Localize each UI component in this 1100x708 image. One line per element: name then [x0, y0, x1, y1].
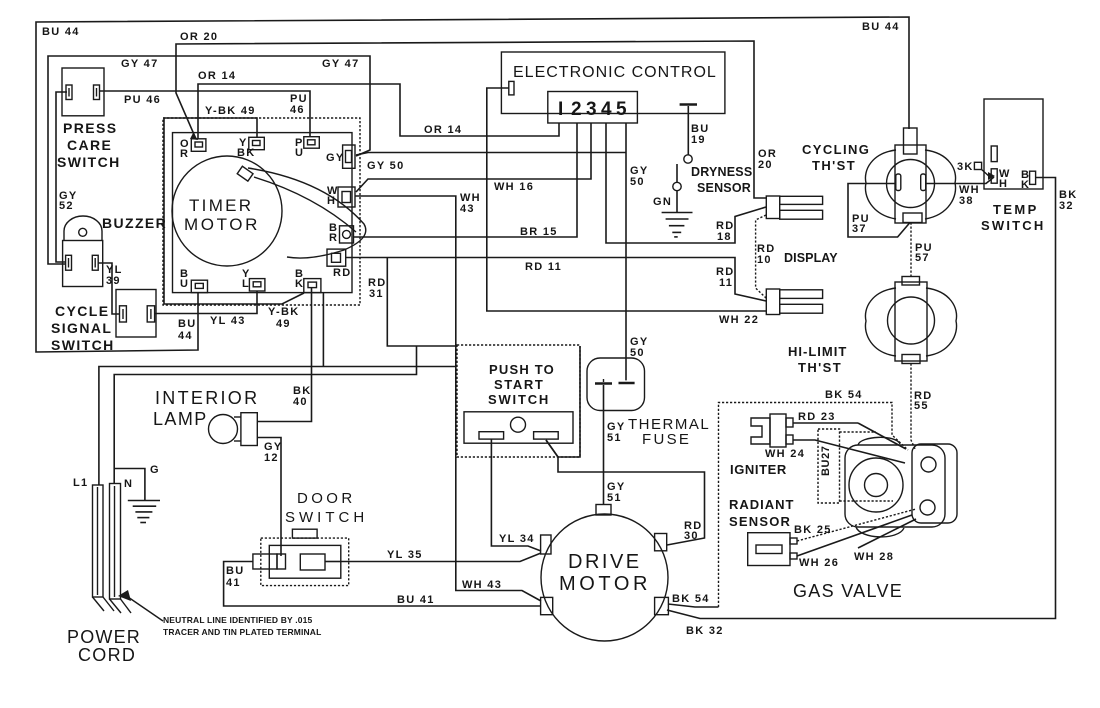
svg-text:RD: RD [333, 267, 352, 279]
svg-text:WH 16: WH 16 [494, 181, 534, 193]
svg-text:YL 35: YL 35 [387, 549, 423, 561]
svg-text:GY 47: GY 47 [322, 58, 360, 70]
svg-text:DRIVE: DRIVE [568, 551, 642, 573]
svg-text:GAS VALVE: GAS VALVE [793, 581, 903, 601]
svg-text:INTERIOR: INTERIOR [155, 388, 259, 408]
svg-text:R: R [329, 232, 338, 244]
svg-text:IGNITER: IGNITER [730, 462, 787, 477]
svg-text:BU: BU [226, 565, 245, 577]
svg-text:SENSOR: SENSOR [697, 181, 751, 195]
svg-text:10: 10 [757, 254, 772, 266]
svg-text:18: 18 [717, 231, 732, 243]
svg-text:TH'ST: TH'ST [812, 158, 856, 173]
svg-text:BK 54: BK 54 [672, 593, 710, 605]
svg-text:SIGNAL: SIGNAL [51, 320, 112, 336]
svg-text:I: I [558, 99, 563, 120]
svg-text:GY 50: GY 50 [367, 160, 405, 172]
svg-text:SWITCH: SWITCH [981, 218, 1045, 233]
svg-text:RD 11: RD 11 [525, 261, 562, 273]
svg-text:41: 41 [226, 577, 241, 589]
svg-text:37: 37 [852, 223, 867, 235]
svg-text:K: K [1021, 179, 1030, 191]
svg-text:OR 20: OR 20 [180, 31, 218, 43]
svg-text:H: H [999, 178, 1008, 190]
svg-text:WH 22: WH 22 [719, 314, 759, 326]
svg-text:YL 43: YL 43 [210, 315, 246, 327]
svg-text:11: 11 [719, 277, 733, 289]
svg-text:BU: BU [178, 318, 197, 330]
svg-text:BK 32: BK 32 [686, 625, 724, 637]
svg-text:BU27: BU27 [820, 445, 832, 476]
svg-text:DISPLAY: DISPLAY [784, 251, 838, 265]
svg-text:MOTOR: MOTOR [559, 573, 651, 595]
svg-text:CORD: CORD [78, 645, 136, 665]
svg-text:CYCLING: CYCLING [802, 142, 870, 157]
svg-text:44: 44 [178, 330, 193, 342]
svg-text:4: 4 [601, 99, 612, 120]
svg-text:RD 23: RD 23 [798, 411, 836, 423]
svg-text:BK 54: BK 54 [825, 389, 863, 401]
svg-text:HI-LIMIT: HI-LIMIT [788, 344, 847, 359]
svg-text:38: 38 [959, 195, 974, 207]
svg-text:CARE: CARE [67, 137, 112, 153]
svg-text:PUSH TO: PUSH TO [489, 362, 555, 377]
svg-text:GY 47: GY 47 [121, 58, 159, 70]
svg-text:WH 43: WH 43 [462, 579, 502, 591]
svg-text:2: 2 [571, 99, 582, 120]
svg-text:32: 32 [1059, 200, 1074, 212]
svg-text:40: 40 [293, 396, 308, 408]
svg-text:51: 51 [607, 432, 622, 444]
svg-text:Y-BK 49: Y-BK 49 [205, 105, 256, 117]
svg-text:SWITCH: SWITCH [488, 392, 550, 407]
svg-text:OR 14: OR 14 [198, 70, 236, 82]
svg-text:GY: GY [326, 152, 345, 164]
svg-text:POWER: POWER [67, 627, 141, 647]
svg-text:19: 19 [691, 134, 706, 146]
svg-text:51: 51 [607, 492, 622, 504]
svg-text:RADIANT: RADIANT [729, 497, 795, 512]
svg-text:50: 50 [630, 347, 645, 359]
svg-text:BUZZER: BUZZER [102, 215, 167, 231]
svg-text:50: 50 [630, 176, 645, 188]
svg-text:3: 3 [586, 99, 597, 120]
svg-text:20: 20 [758, 159, 773, 171]
svg-text:SWITCH: SWITCH [285, 509, 368, 526]
svg-text:30: 30 [684, 530, 699, 542]
svg-text:BR 15: BR 15 [520, 226, 558, 238]
svg-text:39: 39 [106, 275, 121, 287]
svg-text:SENSOR: SENSOR [729, 514, 791, 529]
svg-text:SWITCH: SWITCH [51, 337, 115, 353]
svg-text:GN: GN [653, 196, 672, 208]
svg-text:BU 41: BU 41 [397, 594, 435, 606]
svg-text:DOOR: DOOR [297, 490, 356, 507]
svg-text:TRACER AND TIN PLATED TERMINAL: TRACER AND TIN PLATED TERMINAL [163, 627, 321, 637]
svg-text:H: H [327, 195, 336, 207]
svg-text:12: 12 [264, 452, 279, 464]
svg-text:49: 49 [276, 318, 291, 330]
svg-text:TIMER: TIMER [189, 196, 253, 215]
svg-text:46: 46 [290, 104, 305, 116]
svg-text:55: 55 [914, 400, 929, 412]
svg-text:START: START [494, 377, 544, 392]
svg-text:WH 26: WH 26 [799, 557, 839, 569]
svg-text:BK 25: BK 25 [794, 524, 832, 536]
svg-text:5: 5 [616, 99, 627, 120]
svg-text:57: 57 [915, 252, 930, 264]
svg-text:YL 34: YL 34 [499, 533, 535, 545]
svg-text:L: L [242, 278, 250, 290]
svg-text:FUSE: FUSE [642, 431, 691, 448]
svg-text:PU 46: PU 46 [124, 94, 161, 106]
svg-text:TEMP: TEMP [993, 202, 1039, 217]
svg-text:OR 14: OR 14 [424, 124, 462, 136]
svg-text:DRYNESS: DRYNESS [691, 165, 752, 179]
svg-text:L1: L1 [73, 477, 88, 489]
svg-text:BU 44: BU 44 [862, 21, 900, 33]
svg-text:WH 24: WH 24 [765, 448, 805, 460]
svg-text:TH'ST: TH'ST [798, 360, 842, 375]
svg-text:G: G [150, 464, 160, 476]
svg-text:U: U [295, 147, 304, 159]
svg-text:N: N [124, 478, 133, 490]
svg-text:SWITCH: SWITCH [57, 154, 121, 170]
svg-text:Y-BK: Y-BK [268, 306, 299, 318]
svg-text:U: U [180, 278, 189, 290]
svg-text:31: 31 [369, 288, 384, 300]
svg-text:WH 28: WH 28 [854, 551, 894, 563]
svg-text:R: R [180, 148, 189, 160]
svg-text:43: 43 [460, 203, 475, 215]
svg-text:LAMP: LAMP [153, 409, 208, 429]
svg-text:BK: BK [237, 147, 256, 159]
svg-text:3K: 3K [957, 161, 974, 173]
svg-text:NEUTRAL LINE IDENTIFIED BY .01: NEUTRAL LINE IDENTIFIED BY .015 [163, 615, 312, 625]
svg-text:ELECTRONIC CONTROL: ELECTRONIC CONTROL [513, 64, 717, 81]
svg-text:52: 52 [59, 200, 74, 212]
svg-text:K: K [295, 278, 304, 290]
svg-text:CYCLE: CYCLE [55, 303, 109, 319]
svg-text:PRESS: PRESS [63, 120, 117, 136]
svg-text:BU 44: BU 44 [42, 26, 80, 38]
svg-text:MOTOR: MOTOR [184, 215, 260, 234]
